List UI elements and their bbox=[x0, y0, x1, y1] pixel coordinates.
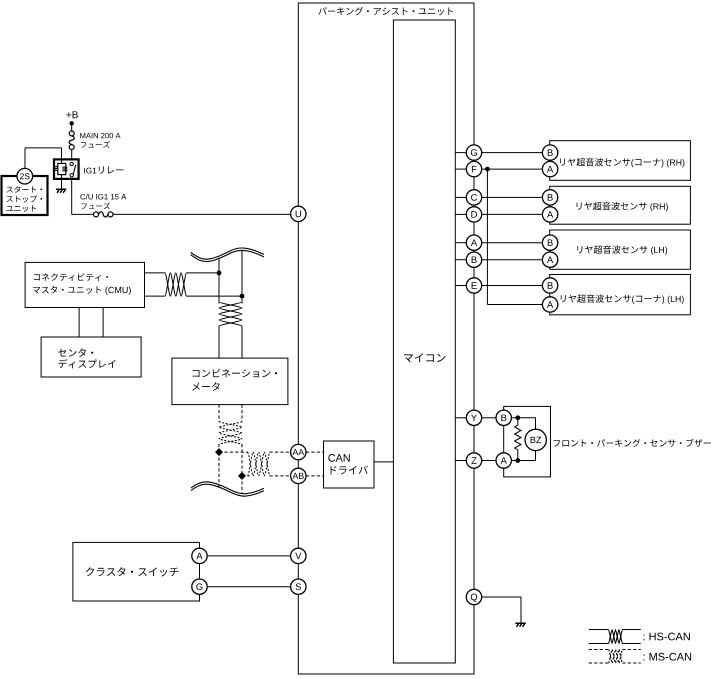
pin A sensor 4 bbox=[542, 297, 557, 312]
pin A rear sensors bbox=[466, 235, 481, 250]
リヤ超音波センサ box 4 bbox=[550, 275, 691, 315]
label CAN ドライバ bbox=[328, 454, 349, 462]
リヤ超音波センサ box 3 bbox=[550, 230, 691, 269]
wire fuse to relay switch bbox=[71, 149, 73, 159]
pin A sensor 3 bbox=[542, 252, 557, 267]
label フロント・パーキング・センサ・ブザー bbox=[554, 439, 711, 447]
HS-CAN trunk to other units bbox=[191, 248, 264, 262]
label IG1リレー bbox=[84, 166, 123, 173]
label HS-CAN bbox=[644, 633, 690, 641]
resistor buzzer parallel bbox=[515, 420, 521, 459]
label コネクティビティ・マスタ・ユニット (CMU) bbox=[34, 273, 108, 281]
label リヤ超音波センサ(コーナ) (LH) bbox=[561, 294, 684, 303]
wire trunk drop CAN-L bbox=[241, 250, 243, 304]
wire meter MS-CAN H bbox=[218, 405, 220, 422]
node HS-CAN H junction bbox=[217, 271, 222, 276]
node buzzer bottom junction bbox=[515, 458, 520, 463]
node MS-CAN H junction bbox=[215, 448, 223, 456]
wire node H to twist bbox=[219, 451, 248, 453]
wire Z to buzzer A bbox=[482, 460, 496, 462]
クラスタ・スイッチ box bbox=[73, 542, 200, 601]
node F branch junction bbox=[485, 167, 490, 172]
legend MS-CAN symbol bbox=[589, 650, 641, 664]
スタート・ストップ・ユニット box bbox=[2, 176, 48, 215]
pin AB bbox=[291, 468, 306, 483]
wire F to sensor1 A bbox=[482, 168, 543, 170]
wire branch down to sensor4 A bbox=[486, 169, 488, 304]
wire twist to meter CAN-L bbox=[241, 326, 243, 359]
relay switch contact bbox=[70, 162, 73, 165]
wire D to sensor2 A bbox=[482, 213, 543, 215]
label MS-CAN bbox=[644, 653, 692, 661]
wire trunk drop MS L bbox=[241, 476, 243, 494]
twisted pair meter MS-CAN bbox=[219, 422, 242, 445]
wire twist to node L bbox=[241, 444, 243, 476]
pin S bbox=[291, 579, 306, 594]
pin E rear sensors bbox=[466, 278, 481, 293]
pin C rear sensors bbox=[466, 190, 481, 205]
フロント・パーキング・センサ・ブザー box bbox=[504, 406, 551, 477]
wire down to 2S connector bbox=[24, 148, 26, 169]
ground Q bbox=[515, 623, 525, 627]
wire CAN driver to マイコン bbox=[374, 461, 393, 463]
pin B sensor 4 bbox=[542, 278, 557, 293]
wire buzzer top bbox=[511, 417, 535, 419]
relay IG1 box bbox=[54, 159, 79, 179]
wire AA to CAN driver bbox=[306, 451, 324, 453]
wire to bus node 1 bbox=[187, 272, 220, 274]
wire A to V bbox=[207, 555, 290, 557]
pin B sensor 1 bbox=[542, 145, 557, 160]
CAN ドライバ block bbox=[324, 441, 375, 488]
label コンビネーション・メータ bbox=[193, 369, 277, 378]
wire G to sensor1 B bbox=[482, 152, 543, 154]
wires マイコン to rear sensor pins bbox=[455, 153, 466, 286]
pin F rear sensors bbox=[466, 161, 481, 176]
pin A sensor 1 bbox=[542, 161, 557, 176]
fuse MAIN 200 A bbox=[69, 131, 74, 136]
コンビネーション・メータ box bbox=[172, 358, 288, 405]
wire twist to node H bbox=[218, 444, 220, 452]
label マイコン bbox=[404, 353, 446, 362]
wire 2S to relay coil horizontal bbox=[25, 147, 62, 149]
wire fuse to pin U bbox=[113, 213, 291, 215]
label リヤ超音波センサ (LH) bbox=[577, 245, 667, 254]
pin D rear sensors bbox=[466, 207, 481, 222]
wire CMU CAN-L bbox=[145, 295, 166, 297]
pin A cluster switch bbox=[192, 548, 207, 563]
wire trunk drop MS H bbox=[218, 452, 220, 487]
センタ・ディスプレイ box bbox=[41, 337, 141, 377]
wire twist to meter CAN-H bbox=[218, 326, 220, 359]
wire twist to pin AB bbox=[270, 475, 291, 477]
node HS-CAN L junction bbox=[240, 294, 245, 299]
wire twist to pin AA bbox=[270, 451, 291, 453]
pin A sensor 2 bbox=[542, 207, 557, 222]
ground relay coil bbox=[56, 189, 66, 193]
wire to bus node 2 bbox=[187, 295, 243, 297]
wire C to sensor2 B bbox=[482, 196, 543, 198]
+B supply label bbox=[66, 111, 78, 118]
パーキング・アシスト・ユニット enclosure bbox=[298, 3, 474, 674]
fuse C/U IG1 15 A bbox=[94, 212, 99, 217]
マイコン block bbox=[393, 20, 455, 663]
twisted pair CMU HS-CAN bbox=[165, 273, 187, 296]
connector 2S bbox=[17, 168, 33, 184]
node buzzer top junction bbox=[515, 415, 520, 420]
pin A buzzer bbox=[496, 453, 511, 468]
wire trunk drop CAN-H bbox=[218, 258, 220, 304]
pin G cluster switch bbox=[192, 579, 207, 594]
wire node L to twist bbox=[242, 475, 250, 477]
node MS-CAN L junction bbox=[238, 472, 246, 480]
wire G to S bbox=[207, 586, 290, 588]
wire AB to CAN driver bbox=[306, 475, 324, 477]
label リヤ超音波センサ(コーナ) (RH) bbox=[560, 158, 684, 167]
pin U bbox=[291, 206, 306, 221]
wire relay coil to ground bbox=[61, 175, 63, 189]
label MAIN 200 A フューズ bbox=[80, 133, 120, 138]
wire Q to ground bbox=[482, 596, 521, 598]
label スタート・ストップ・ユニット bbox=[6, 186, 42, 193]
label リヤ超音波センサ (RH) bbox=[577, 202, 668, 211]
コネクティビティ・マスタ・ユニット (CMU) box bbox=[25, 262, 144, 307]
wire buzzer bottom bbox=[511, 460, 535, 462]
pin B buzzer bbox=[496, 410, 511, 425]
wire +B to fuse bbox=[71, 123, 73, 131]
wire relay switch to C/U fuse bbox=[71, 179, 73, 215]
wire マイコン to pin Z bbox=[455, 460, 466, 462]
wire E to sensor4 B bbox=[482, 285, 543, 287]
twisted pair meter HS-CAN bbox=[219, 302, 242, 326]
wire A to sensor3 B bbox=[482, 242, 543, 244]
wire down to relay coil bbox=[61, 148, 63, 164]
wire Y to buzzer B bbox=[482, 417, 496, 419]
wire CMU to display left bbox=[78, 308, 80, 338]
wire マイコン to pin Y bbox=[455, 417, 466, 419]
wire CMU to display right bbox=[102, 308, 104, 338]
MS-CAN trunk to other units bbox=[191, 482, 264, 496]
リヤ超音波センサ box 2 bbox=[550, 186, 691, 224]
pin B sensor 3 bbox=[542, 235, 557, 250]
wire meter MS-CAN L bbox=[241, 405, 243, 422]
pin AA bbox=[291, 444, 306, 459]
label パーキング・アシスト・ユニット bbox=[318, 7, 453, 15]
pin Z bbox=[466, 453, 481, 468]
wire B to sensor3 A bbox=[482, 259, 543, 261]
pin G rear sensors bbox=[466, 145, 481, 160]
pin Y bbox=[466, 410, 481, 425]
twisted pair unit MS-CAN bbox=[248, 452, 271, 476]
buzzer BZ bbox=[525, 429, 546, 450]
relay coil bbox=[58, 163, 66, 174]
node +B terminal dot bbox=[70, 121, 74, 125]
label C/U IG1 15 A フューズ bbox=[80, 194, 126, 200]
label クラスタ・スイッチ bbox=[86, 567, 179, 576]
pin B rear sensors bbox=[466, 252, 481, 267]
pin V bbox=[291, 548, 306, 563]
リヤ超音波センサ box 1 bbox=[550, 141, 691, 181]
pin Q bbox=[466, 589, 481, 604]
legend HS-CAN symbol bbox=[589, 630, 641, 644]
label センタ・ディスプレイ bbox=[58, 348, 93, 356]
wire CMU CAN-H bbox=[145, 272, 166, 274]
pin B sensor 2 bbox=[542, 190, 557, 205]
